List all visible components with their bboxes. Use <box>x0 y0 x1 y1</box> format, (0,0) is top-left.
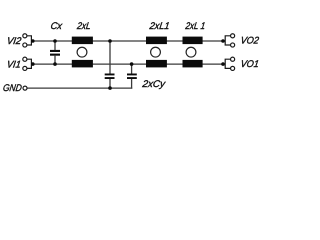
ground terminal GND <box>23 86 27 90</box>
svg-text:2xCy: 2xCy <box>141 79 167 90</box>
node VO2 junction dot <box>221 39 225 43</box>
label VO2 <box>240 36 260 47</box>
label 2xCy <box>141 79 167 90</box>
svg-text:VO2: VO2 <box>240 36 260 47</box>
svg-text:GND: GND <box>2 83 22 94</box>
svg-text:2xL 1: 2xL 1 <box>184 21 206 32</box>
choke L1b 2xL1 (common-mode choke) <box>183 37 203 68</box>
svg-text:2xL: 2xL <box>76 21 92 32</box>
label VO1 <box>240 59 260 70</box>
connector VO1 <box>225 57 234 70</box>
svg-text:VO1: VO1 <box>240 59 260 70</box>
svg-text:2xL1: 2xL1 <box>148 21 170 32</box>
label VI1 <box>6 59 21 70</box>
label 2xL1 (second) <box>184 21 206 32</box>
label GND <box>2 83 22 94</box>
choke L 2xL (common-mode choke) <box>72 37 93 68</box>
capacitor Cy2 (right, line1 to GND) <box>127 64 137 89</box>
wire line1 (lower line from VI1 to VO1) <box>31 63 225 65</box>
wire GND line <box>27 87 132 89</box>
choke L1a 2xL1 (common-mode choke) <box>146 37 167 68</box>
node Cx top dot <box>53 39 57 43</box>
label 2xL1 (first) <box>148 21 170 32</box>
node Cx bottom dot <box>53 62 57 66</box>
label VI2 <box>6 36 23 47</box>
wire line2 (top line from VI2 to VO2) <box>31 40 225 42</box>
node VO1 junction dot <box>221 62 225 66</box>
node Cy1 top dot on line2 <box>108 39 112 43</box>
capacitor Cy1 (left, line2 to GND) <box>105 41 115 88</box>
connector VI2 <box>23 34 32 47</box>
svg-text:VI1: VI1 <box>6 59 21 70</box>
label 2xL <box>76 21 92 32</box>
node VI2 junction dot <box>31 39 35 43</box>
node Cy2 dot on line1 <box>130 62 134 66</box>
connector VI1 <box>23 57 32 70</box>
svg-text:VI2: VI2 <box>6 36 23 47</box>
label Cx <box>50 21 64 32</box>
node VI1 junction dot <box>31 62 35 66</box>
connector VO2 <box>225 34 234 47</box>
capacitor Cx <box>50 41 60 64</box>
node Cy1 bottom dot on GND <box>108 86 112 90</box>
